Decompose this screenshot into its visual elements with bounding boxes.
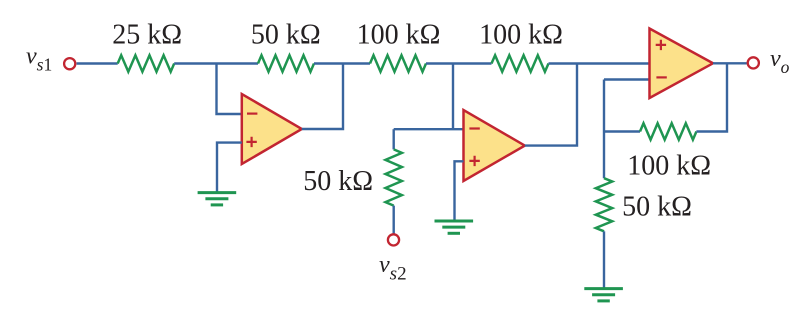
wire op-amp U2 noninverting input to ground — [455, 161, 464, 220]
svg-text:50 kΩ: 50 kΩ — [622, 191, 692, 222]
wire feedback right to output — [696, 63, 727, 131]
svg-text:100 kΩ: 100 kΩ — [357, 19, 441, 50]
op-amp U2 noninverting marker — [469, 156, 479, 166]
resistor R1 25 k — [118, 55, 175, 71]
svg-text:vs1: vs1 — [26, 43, 52, 74]
op-amp U2 inverting marker — [469, 127, 479, 129]
wire op-amp U1 noninverting input to ground — [217, 143, 242, 193]
wire R4 to op-amp U3 noninverting input — [549, 62, 650, 64]
resistor R7 100 k feedback — [640, 123, 696, 139]
wire vs1 to R1 — [77, 62, 118, 64]
wire R6 to ground — [603, 231, 605, 288]
wire op-amp U3 output to terminal vo — [713, 62, 747, 64]
op-amp U1 inverting marker — [247, 112, 257, 114]
wire op-amp U2 output to node D — [525, 64, 577, 146]
terminal vs2 — [388, 234, 399, 245]
terminal vo — [748, 57, 759, 68]
op-amp U1 noninverting marker — [246, 137, 256, 147]
resistor R6 50 k (to ground) — [596, 178, 612, 231]
resistor R2 50 k — [258, 55, 314, 71]
svg-text:50 kΩ: 50 kΩ — [303, 166, 373, 197]
op-amp U3 inverting marker — [656, 76, 666, 78]
terminal vs1 — [64, 58, 75, 69]
op-amp U3 noninverting marker — [656, 40, 666, 50]
wire op-amp U3 inverting input branch — [604, 78, 650, 80]
op-amp U1 — [242, 94, 302, 164]
ground G2 — [435, 220, 474, 223]
ground G1 — [198, 191, 237, 194]
wire R1 to R2 — [174, 62, 258, 64]
wire node A to op-amp U1 inverting input — [217, 64, 242, 115]
wire R2 to R3 — [314, 62, 370, 64]
svg-text:vo: vo — [770, 46, 790, 77]
wire inverting branch down to R6 — [603, 80, 605, 179]
resistor R4 100 k — [492, 55, 549, 71]
svg-text:25 kΩ: 25 kΩ — [112, 19, 182, 50]
op-amp U2 — [464, 110, 525, 181]
svg-text:50 kΩ: 50 kΩ — [251, 19, 321, 50]
wire feedback left — [604, 130, 640, 132]
op-amp U3 — [650, 29, 714, 99]
ground G3 — [584, 287, 623, 290]
svg-text:100 kΩ: 100 kΩ — [627, 150, 711, 181]
wire R3 to R4 — [426, 62, 492, 64]
svg-text:100 kΩ: 100 kΩ — [479, 19, 563, 50]
wire node C to op-amp U2 inverting input — [452, 64, 454, 130]
wire vs2 node to op-amp U2 inverting input — [394, 128, 464, 130]
wire R5 to terminal vs2 — [393, 206, 395, 234]
resistor R3 100 k — [370, 55, 426, 71]
wire vs2 branch to resistor R5 — [393, 129, 395, 149]
resistor R5 50 k (vs2 branch) — [386, 149, 402, 205]
wire op-amp U1 output to node B — [302, 64, 343, 130]
svg-text:vs2: vs2 — [379, 252, 407, 285]
